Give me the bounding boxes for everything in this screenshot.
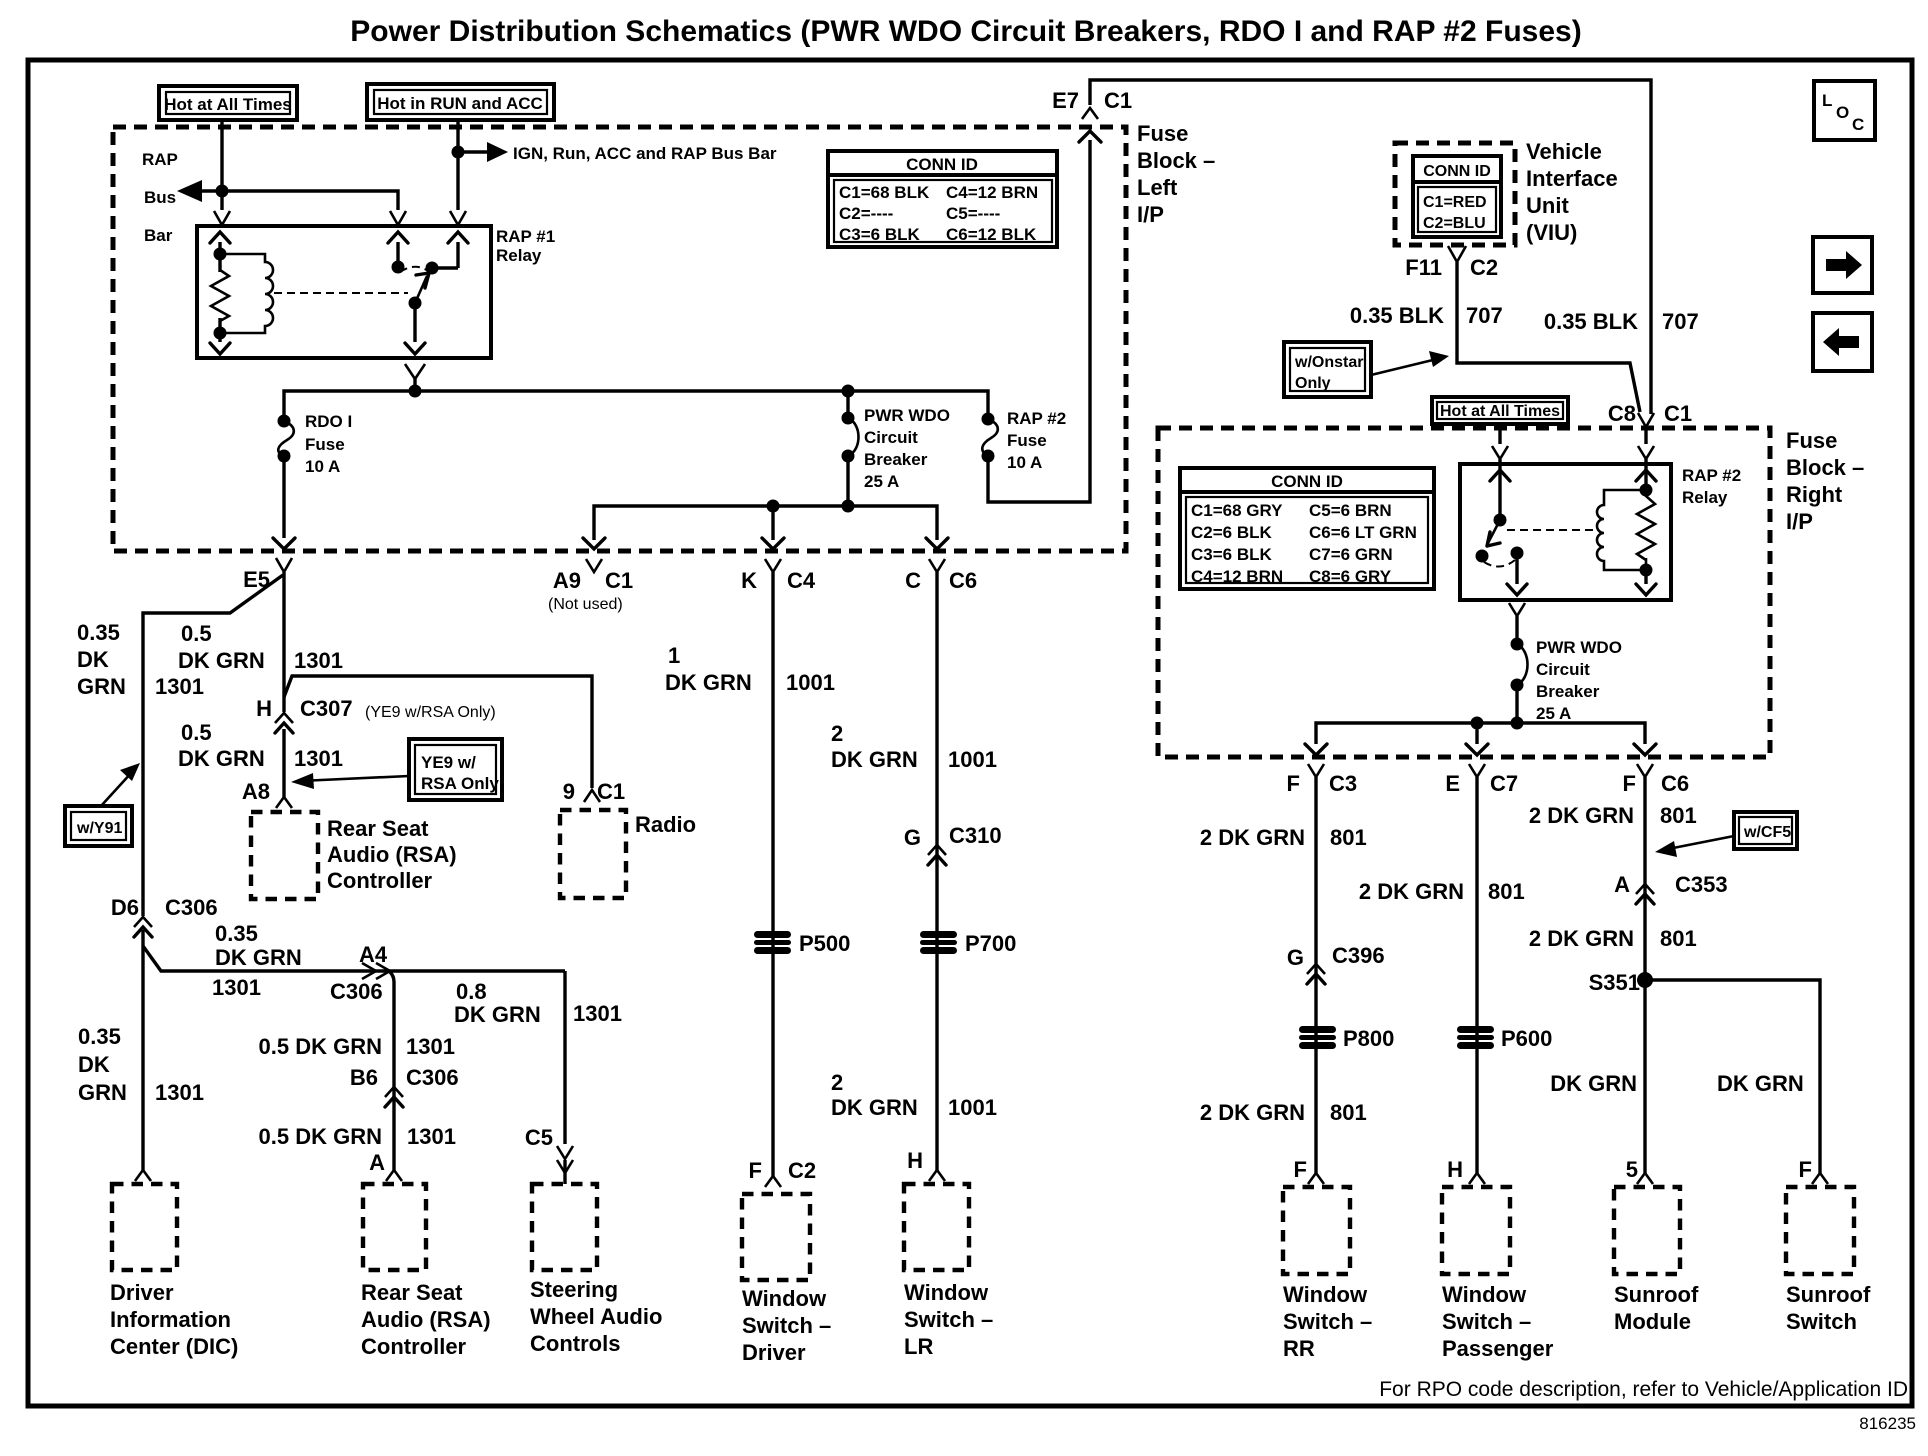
callout arrow: w/CF5 to wire	[1655, 836, 1734, 857]
wire: C307 to A8	[282, 729, 285, 797]
svg-text:D6: D6	[111, 895, 139, 920]
label: 0.8 DK GRN 1301	[454, 979, 622, 1027]
svg-text:C396: C396	[1332, 943, 1385, 968]
label: E C7	[1445, 771, 1518, 796]
svg-text:Radio: Radio	[635, 812, 696, 837]
svg-text:w/Onstar: w/Onstar	[1294, 354, 1363, 371]
label box: Hot in RUN and ACC	[367, 84, 554, 120]
svg-text:CONN ID: CONN ID	[1271, 472, 1343, 491]
switch blade: RAP#1	[415, 276, 427, 303]
junction: S351 splice	[1637, 972, 1653, 988]
svg-text:F: F	[1294, 1157, 1307, 1182]
svg-text:Audio (RSA): Audio (RSA)	[361, 1307, 491, 1332]
label: 0.35 DK GRN 1301 (DIC wire upper)	[77, 620, 204, 699]
label: 0.5 DK GRN 1301 (B6 lower)	[259, 1124, 456, 1149]
svg-text:Window: Window	[1283, 1282, 1368, 1307]
junction: RAP#1 blade pivot	[409, 297, 422, 310]
connector fork: C8/C1	[1638, 413, 1654, 427]
svg-text:0.8: 0.8	[456, 979, 487, 1004]
svg-text:C6=6 LT GRN: C6=6 LT GRN	[1309, 523, 1417, 542]
wire: D6 to DIC	[141, 930, 144, 1170]
circuit breaker: PWR WDO (left)	[842, 391, 859, 506]
label: F C3	[1287, 771, 1358, 796]
svg-text:P800: P800	[1343, 1026, 1394, 1051]
wire: E drop	[1475, 723, 1478, 744]
svg-text:0.35: 0.35	[77, 620, 120, 645]
connector: G/C310 fork	[928, 845, 946, 855]
svg-text:2 DK GRN: 2 DK GRN	[1529, 926, 1634, 951]
svg-text:C306: C306	[330, 979, 383, 1004]
svg-text:(YE9 w/RSA Only): (YE9 w/RSA Only)	[365, 704, 496, 721]
svg-text:C306: C306	[165, 895, 218, 920]
svg-text:P700: P700	[965, 931, 1016, 956]
svg-text:0.35: 0.35	[78, 1024, 121, 1049]
label: Window Switch - LR	[904, 1280, 993, 1359]
inline connector: P800	[1299, 1026, 1336, 1049]
svg-text:801: 801	[1330, 825, 1367, 850]
svg-text:0.5 DK GRN: 0.5 DK GRN	[259, 1034, 382, 1059]
connector fork: Sunroof Module pin 5	[1637, 1173, 1653, 1184]
svg-text:Circuit: Circuit	[1536, 660, 1590, 679]
connector fork: relay2 coil pin	[1638, 446, 1654, 459]
svg-text:Hot in RUN and ACC: Hot in RUN and ACC	[377, 94, 543, 113]
svg-text:2 DK GRN: 2 DK GRN	[1200, 825, 1305, 850]
connector fork: E5	[276, 558, 292, 572]
svg-text:DK GRN: DK GRN	[215, 945, 302, 970]
dashed box: Sunroof Switch	[1786, 1187, 1854, 1274]
connector fork: relay pin 2 top	[390, 211, 406, 225]
dashed box: Fuse Block - Left I/P	[113, 127, 1126, 551]
connector fork: E/C7	[1469, 764, 1485, 777]
svg-text:Rear Seat: Rear Seat	[361, 1280, 463, 1305]
svg-text:10 A: 10 A	[1007, 453, 1042, 472]
label: Sunroof Switch	[1786, 1282, 1871, 1334]
svg-text:(VIU): (VIU)	[1526, 220, 1577, 245]
svg-text:0.5: 0.5	[181, 720, 212, 745]
svg-text:Bar: Bar	[144, 226, 173, 245]
svg-text:For RPO code description, refe: For RPO code description, refer to Vehic…	[1379, 1378, 1908, 1401]
svg-text:Switch –: Switch –	[1283, 1309, 1372, 1334]
wire: relay2 switch pin into box	[1498, 459, 1501, 520]
svg-text:F11: F11	[1405, 255, 1442, 280]
connector fork: Radio 9/C1	[584, 790, 600, 802]
wire: distribution bus below breaker	[594, 506, 937, 540]
svg-text:801: 801	[1330, 1100, 1367, 1125]
arrow down: relay2 coil bottom pin	[1636, 584, 1656, 595]
svg-text:LR: LR	[904, 1334, 933, 1359]
svg-text:2 DK GRN: 2 DK GRN	[1359, 879, 1464, 904]
svg-text:RAP #1: RAP #1	[496, 227, 555, 246]
label: Sunroof Module	[1614, 1282, 1699, 1334]
label: 2 DK GRN 801 (RR lower)	[1200, 1100, 1367, 1125]
svg-text:DK GRN: DK GRN	[1717, 1071, 1804, 1096]
label: Rear Seat Audio (RSA) Controller (lower)	[361, 1280, 491, 1359]
svg-text:RR: RR	[1283, 1336, 1315, 1361]
svg-text:F: F	[1623, 771, 1636, 796]
label: 2 DK GRN 801 (passenger)	[1359, 879, 1525, 904]
connector: B6/C306 double fork	[385, 1087, 403, 1097]
svg-text:2: 2	[831, 1070, 843, 1095]
svg-text:C2: C2	[1470, 255, 1498, 280]
label: Rear Seat Audio (RSA) Controller (upper)	[327, 816, 457, 893]
switch contact: RAP#1 fixed A	[392, 261, 405, 274]
svg-text:C2=BLU: C2=BLU	[1423, 215, 1486, 232]
svg-text:C4=12 BRN: C4=12 BRN	[946, 183, 1038, 202]
svg-text:Hot at All Times: Hot at All Times	[164, 95, 292, 114]
svg-text:C2: C2	[788, 1158, 816, 1183]
svg-text:0.5 DK GRN: 0.5 DK GRN	[259, 1124, 382, 1149]
label: A9 C1 (Not used)	[548, 568, 633, 613]
svg-text:B6: B6	[350, 1065, 378, 1090]
svg-text:L: L	[1822, 91, 1832, 110]
svg-text:Right: Right	[1786, 482, 1843, 507]
label: F C2	[749, 1158, 817, 1183]
dashed box: Radio	[560, 810, 626, 898]
connector fork: F/C3	[1308, 764, 1324, 777]
svg-text:DK GRN: DK GRN	[454, 1002, 541, 1027]
connector fork: relay2 switch pin	[1492, 446, 1508, 459]
junction: IGN tap	[452, 146, 465, 159]
svg-text:C5=6 BRN: C5=6 BRN	[1309, 501, 1392, 520]
connector fork: RAP#1 output	[405, 364, 425, 379]
svg-text:DK GRN: DK GRN	[831, 1095, 918, 1120]
CONN ID mini table (VIU)	[1413, 156, 1501, 237]
svg-text:H: H	[907, 1148, 923, 1173]
connector: C5 double chevron down	[557, 1146, 573, 1173]
svg-text:RAP: RAP	[142, 150, 178, 169]
svg-text:C1: C1	[597, 779, 625, 804]
svg-text:816235: 816235	[1859, 1414, 1916, 1433]
dashed box: Rear Seat Audio Controller (upper)	[251, 812, 318, 899]
arrow down: E/C7 exit	[1466, 744, 1488, 755]
svg-text:0.5: 0.5	[181, 621, 212, 646]
svg-text:O: O	[1836, 103, 1849, 122]
svg-text:RSA Only: RSA Only	[421, 774, 499, 793]
inductor coil: RAP#2	[1597, 490, 1646, 570]
svg-text:Breaker: Breaker	[864, 450, 928, 469]
svg-text:I/P: I/P	[1137, 202, 1164, 227]
nav box: arrow left	[1813, 313, 1872, 371]
label: Driver Information Center (DIC)	[110, 1280, 238, 1359]
label: 2 DK GRN 1001 (lower)	[831, 1070, 997, 1120]
svg-text:Fuse: Fuse	[1007, 431, 1047, 450]
label: 0.5 DK GRN 1301 (C307 to A8)	[178, 720, 343, 771]
label box: w/CF5	[1734, 812, 1797, 849]
svg-text:Only: Only	[1295, 375, 1331, 392]
wire: RAP #2 fuse output to E7 riser	[988, 140, 1090, 502]
label box: YE9 w/ RSA Only	[409, 739, 502, 800]
label: 0.35 DK GRN 1301 / A4 C306	[212, 921, 388, 1004]
connector fork: Window Driver F pin	[765, 1176, 781, 1187]
svg-text:A8: A8	[242, 779, 270, 804]
svg-text:Power Distribution Schematics: Power Distribution Schematics (PWR WDO C…	[350, 15, 1581, 48]
wire: RAP#1 common down	[413, 303, 416, 342]
svg-text:1301: 1301	[294, 648, 343, 673]
svg-text:DK GRN: DK GRN	[1550, 1071, 1637, 1096]
connector fork: RSA A pin	[386, 1170, 402, 1181]
wire: IGN branch	[458, 150, 492, 153]
svg-text:Wheel Audio: Wheel Audio	[530, 1304, 662, 1329]
svg-text:C3=6 BLK: C3=6 BLK	[839, 225, 920, 244]
svg-text:Block –: Block –	[1786, 455, 1864, 480]
svg-text:C4=12 BRN: C4=12 BRN	[1191, 567, 1283, 586]
dashed box: Steering Wheel Audio Controls	[532, 1184, 597, 1270]
svg-text:9: 9	[563, 779, 575, 804]
label box: Hot at All Times (right)	[1432, 397, 1568, 424]
label: 0.35 DK GRN 1301 (DIC wire lower)	[78, 1024, 204, 1105]
svg-text:1: 1	[668, 643, 680, 668]
svg-text:5: 5	[1626, 1157, 1638, 1182]
svg-text:Left: Left	[1137, 175, 1178, 200]
inline connector: P500	[754, 931, 791, 954]
connector fork: Window LR H pin	[929, 1170, 945, 1181]
wire: S351 branch to Sunroof Switch	[1645, 980, 1820, 1173]
svg-text:Audio (RSA): Audio (RSA)	[327, 842, 457, 867]
svg-text:1001: 1001	[948, 747, 997, 772]
svg-text:CONN ID: CONN ID	[906, 155, 978, 174]
relay RAP#1 coil-side pin wire	[218, 242, 221, 342]
connector fork: Window Passenger H pin	[1469, 1173, 1485, 1184]
dashed box: Window Switch RR	[1283, 1187, 1350, 1274]
svg-text:GRN: GRN	[77, 674, 126, 699]
wire: K/C4 down to Window Switch Driver	[771, 572, 774, 1176]
svg-text:25 A: 25 A	[1536, 704, 1571, 723]
wire: A4 to C5 steering	[563, 971, 566, 1144]
label: 2 DK GRN 801 (sunroof mid)	[1529, 926, 1697, 951]
wire: K drop	[771, 506, 774, 540]
svg-text:0.35: 0.35	[215, 921, 258, 946]
label: 0.35 BLK 707 (left)	[1350, 303, 1503, 328]
svg-text:H: H	[256, 696, 272, 721]
connector fork: C/C6	[929, 559, 945, 572]
wire: RAP#1 pin3 into box	[456, 242, 459, 268]
svg-text:w/CF5: w/CF5	[1743, 824, 1791, 841]
svg-text:Fuse: Fuse	[1786, 428, 1837, 453]
connector fork: Window RR F pin	[1308, 1173, 1324, 1184]
svg-text:Switch –: Switch –	[742, 1313, 831, 1338]
wire: F/C3 to Window Switch RR	[1314, 777, 1317, 1173]
svg-text:w/Y91: w/Y91	[76, 820, 122, 837]
svg-text:F: F	[1287, 771, 1300, 796]
svg-text:RAP #2: RAP #2	[1007, 409, 1066, 428]
svg-text:C6: C6	[949, 568, 977, 593]
wire: relay2 coil pin into box	[1644, 459, 1647, 492]
arrow down: RAP#1 coil pin bottom	[210, 343, 230, 354]
label: RAP #2 Fuse 10 A	[1007, 409, 1066, 472]
arrow down: A9 exit	[583, 538, 605, 549]
label: Window Switch - Passenger	[1442, 1282, 1554, 1361]
dashed arc: RAP#1 alternate throw	[400, 267, 428, 272]
svg-text:A9: A9	[553, 568, 581, 593]
label: Fuse Block - Right I/P	[1786, 428, 1864, 534]
label box: w/Onstar Only	[1284, 342, 1371, 397]
arrow down: F/C6 exit	[1634, 744, 1656, 755]
label: Vehicle Interface Unit (VIU)	[1526, 139, 1618, 245]
label box: Hot at All Times (left)	[159, 86, 297, 120]
label: 2 DK GRN 801 (RR upper)	[1200, 825, 1367, 850]
svg-text:C: C	[1852, 115, 1864, 134]
arrow up: relay2 switch pin	[1490, 470, 1510, 481]
svg-text:DK GRN: DK GRN	[178, 746, 265, 771]
svg-text:RDO I: RDO I	[305, 412, 352, 431]
dashed box: Window Switch Passenger	[1442, 1187, 1510, 1274]
dashed box: Sunroof Module	[1614, 1187, 1680, 1274]
wire: branch to Radio	[284, 676, 592, 788]
svg-text:707: 707	[1662, 309, 1699, 334]
svg-text:C7=6 GRN: C7=6 GRN	[1309, 545, 1393, 564]
junction: RAP#1 coil top	[214, 248, 227, 261]
svg-text:C306: C306	[406, 1065, 459, 1090]
arrow up: RAP#1 pin3	[448, 232, 468, 243]
switch contact: RAP#2 output	[1511, 547, 1524, 560]
CONN ID table (left fuse block)	[828, 151, 1057, 247]
label: 0.5 DK GRN 1301 (B6 upper)	[259, 1034, 455, 1059]
junction: bus2 at breaker	[842, 500, 855, 513]
label: RAP #1 Relay	[496, 227, 555, 265]
wire: RAP#1 contact B to pin 3	[432, 266, 458, 269]
wire: Hot at All Times down to RAP #1 relay	[220, 120, 223, 210]
svg-text:1301: 1301	[155, 674, 204, 699]
callout arrow: w/Onstar to wire	[1371, 351, 1449, 375]
wire: relay2 coil bottom down	[1644, 570, 1647, 584]
connector fork: DIC pin	[135, 1170, 151, 1181]
svg-text:G: G	[1287, 945, 1304, 970]
svg-text:Module: Module	[1614, 1309, 1691, 1334]
wire: D6 branch to A4/C306	[143, 946, 565, 971]
connector: D6/C306 double fork	[134, 917, 152, 927]
svg-text:Interface: Interface	[1526, 166, 1618, 191]
svg-text:2 DK GRN: 2 DK GRN	[1529, 803, 1634, 828]
svg-text:E7: E7	[1052, 88, 1079, 113]
svg-text:1001: 1001	[948, 1095, 997, 1120]
connector fork: relay pin 3 top	[450, 211, 466, 225]
wire: right distribution bus	[1316, 723, 1645, 744]
callout arrow: w/Y91 to DIC wire	[101, 763, 140, 806]
label: Window Switch - RR	[1283, 1282, 1372, 1361]
switch contact: RAP#2 lower left	[1476, 550, 1489, 563]
svg-text:Controller: Controller	[361, 1334, 467, 1359]
svg-text:Relay: Relay	[1682, 488, 1728, 507]
svg-text:25 A: 25 A	[864, 472, 899, 491]
svg-text:C2=6 BLK: C2=6 BLK	[1191, 523, 1272, 542]
svg-text:GRN: GRN	[78, 1080, 127, 1105]
wire: relay2 output to breaker2	[1515, 616, 1518, 644]
junction: RAP bus bar tap	[216, 185, 229, 198]
inline connector: P700	[920, 931, 957, 954]
svg-text:0.35 BLK: 0.35 BLK	[1544, 309, 1638, 334]
svg-text:CONN ID: CONN ID	[1423, 163, 1491, 180]
dashed box: Window Switch LR	[904, 1184, 969, 1270]
arrow: RAP#1 blade tip	[416, 273, 429, 288]
label: 2 DK GRN 801 (sunroof top)	[1529, 803, 1697, 828]
wire: RDO I fuse output down to E5	[282, 456, 285, 538]
svg-text:DK GRN: DK GRN	[665, 670, 752, 695]
svg-text:Sunroof: Sunroof	[1614, 1282, 1699, 1307]
svg-text:C1=68 BLK: C1=68 BLK	[839, 183, 930, 202]
svg-text:DK GRN: DK GRN	[178, 648, 265, 673]
svg-text:YE9 w/: YE9 w/	[421, 753, 476, 772]
junction: bus3 at breaker	[1511, 717, 1524, 730]
svg-text:DK: DK	[77, 647, 109, 672]
svg-text:2 DK GRN: 2 DK GRN	[1200, 1100, 1305, 1125]
svg-text:G: G	[904, 825, 921, 850]
connector fork: A8	[276, 797, 292, 808]
svg-text:C353: C353	[1675, 872, 1728, 897]
svg-text:Controller: Controller	[327, 868, 433, 893]
wire: C5 into steering box	[563, 1160, 566, 1184]
svg-text:1301: 1301	[406, 1034, 455, 1059]
svg-text:Window: Window	[742, 1286, 827, 1311]
arrow down: C exit	[926, 538, 948, 549]
svg-text:C1: C1	[1664, 401, 1692, 426]
label: 9 C1 (Radio)	[563, 779, 625, 804]
svg-text:PWR WDO: PWR WDO	[864, 406, 950, 425]
wire: Hot at All Times right drop	[1498, 424, 1501, 444]
svg-text:P600: P600	[1501, 1026, 1552, 1051]
svg-text:DK: DK	[78, 1052, 110, 1077]
arrow: RAP#2 blade tip	[1487, 532, 1500, 546]
arrow: RAP Bus Bar (left)	[177, 180, 202, 202]
connector: H/C307 double fork	[275, 713, 293, 723]
locator box: LOC	[1814, 81, 1875, 140]
svg-text:2: 2	[831, 721, 843, 746]
svg-text:10 A: 10 A	[305, 457, 340, 476]
svg-text:S351: S351	[1589, 970, 1640, 995]
wire: RAP#2 output down	[1515, 553, 1518, 584]
svg-text:801: 801	[1660, 926, 1697, 951]
label: F C6	[1623, 771, 1690, 796]
arrow up: E7 entry at dashed border	[1079, 131, 1101, 142]
label: K C4	[741, 568, 816, 593]
label: Fuse Block - Left I/P	[1137, 121, 1215, 227]
svg-text:F: F	[749, 1158, 762, 1183]
resistor: RAP#2	[1637, 490, 1655, 570]
label: PWR WDO Circuit Breaker 25 A (right)	[1536, 638, 1622, 723]
svg-text:Hot at All Times: Hot at All Times	[1440, 403, 1560, 420]
junction: relay2 coil bottom	[1640, 564, 1653, 577]
svg-text:C8=6 GRY: C8=6 GRY	[1309, 567, 1392, 586]
svg-text:Fuse: Fuse	[305, 435, 345, 454]
resistor: RAP#1	[211, 270, 229, 321]
wire: F11 Onstar drop	[1457, 262, 1640, 412]
label: PWR WDO Circuit Breaker 25 A	[864, 406, 950, 491]
junction: bus3 at E drop	[1471, 717, 1484, 730]
arrow down: E5 exit	[273, 538, 295, 549]
svg-text:1301: 1301	[407, 1124, 456, 1149]
wire: RAP Bus Bar horizontal	[186, 191, 398, 210]
svg-text:C6: C6	[1661, 771, 1689, 796]
connector: G/C396 double fork	[1307, 964, 1325, 974]
junction: RAP#1 coil bottom	[214, 327, 227, 340]
label: C C6	[905, 568, 977, 593]
label: E7 C1	[1052, 88, 1132, 113]
svg-text:C7: C7	[1490, 771, 1518, 796]
svg-text:Bus: Bus	[144, 188, 176, 207]
svg-text:A: A	[369, 1150, 385, 1175]
label: C8 C1	[1608, 401, 1692, 426]
svg-text:C3: C3	[1329, 771, 1357, 796]
circuit breaker: PWR WDO (right)	[1511, 638, 1528, 724]
junction: bus to RAP#1	[409, 385, 422, 398]
inline connector: P600	[1457, 1026, 1494, 1049]
junction: bus to PWR WDO breaker	[842, 385, 855, 398]
wire: C306 B6 drop	[390, 972, 394, 1170]
wire: C/C6 down to Window Switch LR	[935, 572, 938, 1172]
svg-text:Block –: Block –	[1137, 148, 1215, 173]
svg-text:DK GRN: DK GRN	[831, 747, 918, 772]
connector: A/C353 double fork	[1636, 884, 1654, 894]
svg-text:0.35 BLK: 0.35 BLK	[1350, 303, 1444, 328]
